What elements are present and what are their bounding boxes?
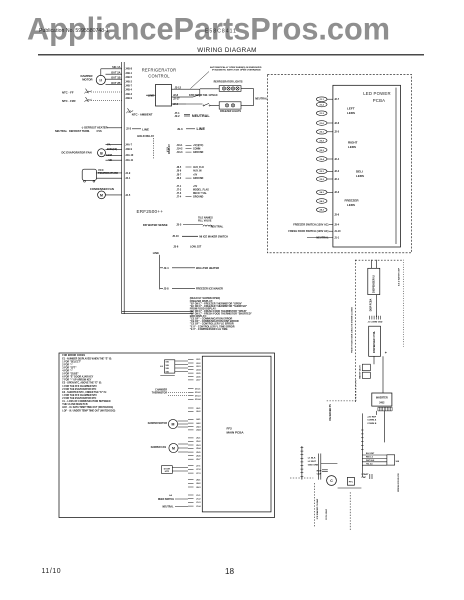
svg-text:DISPENSER UI: DISPENSER UI bbox=[372, 275, 376, 293]
svg-text:DELI: DELI bbox=[356, 170, 363, 174]
svg-text:NEUTRAL: NEUTRAL bbox=[255, 97, 268, 101]
svg-text:J1-1: J1-1 bbox=[196, 495, 201, 497]
svg-text:J6-2: J6-2 bbox=[196, 411, 201, 413]
svg-text:J3-1: J3-1 bbox=[125, 177, 131, 180]
svg-text:AUX_FLO: AUX_FLO bbox=[193, 166, 204, 169]
svg-text:4 FOR "-": 4 FOR "-" bbox=[62, 370, 72, 373]
svg-text:FREEZER: FREEZER bbox=[345, 199, 360, 203]
door switch on wire bbox=[186, 96, 193, 98]
svg-text:J3-6: J3-6 bbox=[173, 245, 179, 249]
svg-text:PTC: PTC bbox=[349, 482, 354, 484]
svg-text:+5(1)(VC): +5(1)(VC) bbox=[193, 145, 203, 147]
svg-text:FREEZER SWITCH (120V AC): FREEZER SWITCH (120V AC) bbox=[293, 222, 328, 226]
svg-text:J7-1: J7-1 bbox=[175, 111, 181, 115]
svg-text:21-1: 21-1 bbox=[320, 99, 325, 101]
svg-text:J4A-10: J4A-10 bbox=[125, 154, 134, 157]
refrigerator control relay box bbox=[156, 85, 172, 107]
svg-text:CAP: CAP bbox=[361, 476, 366, 479]
svg-text:2 FOR "-": 2 FOR "-" bbox=[62, 364, 72, 366]
wire line branch bbox=[159, 255, 161, 290]
svg-text:J1-2: J1-2 bbox=[196, 499, 201, 501]
svg-text:FILL VALVE: FILL VALVE bbox=[198, 220, 212, 223]
svg-text:+5V REF: +5V REF bbox=[367, 417, 377, 419]
svg-text:CVS: CVS bbox=[97, 129, 103, 133]
svg-text:J4B-9: J4B-9 bbox=[125, 148, 132, 151]
wire to refrigerator lights bbox=[186, 88, 200, 90]
svg-text:M: M bbox=[99, 79, 102, 83]
svg-text:J4B-7: J4B-7 bbox=[125, 85, 132, 88]
svg-text:LOW JST: LOW JST bbox=[190, 245, 202, 249]
svg-text:SIG: SIG bbox=[166, 372, 170, 374]
freezer lights box bbox=[219, 102, 241, 109]
svg-text:REFRIGERATOR LIGHTS: REFRIGERATOR LIGHTS bbox=[214, 80, 243, 83]
svg-text:M: M bbox=[100, 193, 103, 197]
svg-text:NEUTRAL: NEUTRAL bbox=[162, 506, 174, 509]
display connector bbox=[165, 360, 175, 373]
svg-text:FRESH FOOD ICE: FRESH FOOD ICE bbox=[398, 473, 400, 492]
condenser fan wire bbox=[105, 194, 121, 196]
svg-text:OUT 2B: OUT 2B bbox=[111, 81, 121, 85]
svg-text:LINE: LINE bbox=[153, 251, 159, 255]
svg-text:LEDS: LEDS bbox=[348, 145, 356, 149]
svg-text:J7-1: J7-1 bbox=[177, 186, 182, 188]
svg-text:2 FOR THE EVAPORATOR NTC: 2 FOR THE EVAPORATOR NTC bbox=[62, 397, 96, 400]
svg-text:24-1: 24-1 bbox=[320, 191, 325, 194]
svg-text:7 FOR "-" UP ARROW KEY: 7 FOR "-" UP ARROW KEY bbox=[62, 379, 92, 382]
svg-text:FRESH FOOD SWITCH (120V AC): FRESH FOOD SWITCH (120V AC) bbox=[288, 229, 328, 233]
svg-text:NEUTRAL: NEUTRAL bbox=[55, 129, 68, 133]
svg-text:ERF2500++: ERF2500++ bbox=[137, 209, 164, 214]
svg-text:NEUTRAL: NEUTRAL bbox=[192, 114, 210, 118]
svg-text:J4B-9: J4B-9 bbox=[125, 97, 132, 100]
svg-text:J2-5: J2-5 bbox=[196, 373, 201, 375]
svg-text:CONTROL: CONTROL bbox=[148, 73, 170, 78]
dashed boundary top bbox=[355, 259, 403, 261]
svg-text:6 FOR "E" DOOR AJAR KEY: 6 FOR "E" DOOR AJAR KEY bbox=[62, 376, 93, 379]
svg-text:J1-1: J1-1 bbox=[334, 236, 340, 239]
svg-text:J7-1: J7-1 bbox=[196, 466, 201, 468]
svg-text:RECO ? VAL: RECO ? VAL bbox=[193, 192, 207, 195]
svg-text:LG: LG bbox=[160, 366, 163, 368]
svg-text:J8-7: J8-7 bbox=[177, 174, 182, 176]
svg-text:LEDS: LEDS bbox=[347, 203, 355, 207]
svg-text:J4B-2: J4B-2 bbox=[125, 80, 132, 83]
dashed bottom-left stub bbox=[290, 477, 313, 479]
ff2 outer box bbox=[59, 353, 275, 518]
svg-text:E2 - OPEN NTC, ABOVE THE "E" I: E2 - OPEN NTC, ABOVE THE "E" IS: bbox=[62, 382, 102, 385]
svg-text:J4B-4: J4B-4 bbox=[125, 89, 132, 92]
svg-text:OUT 2A: OUT 2A bbox=[111, 71, 121, 75]
compressor harness wires bbox=[362, 454, 387, 456]
wire dispenser bbox=[376, 295, 378, 317]
svg-text:J8-3: J8-3 bbox=[196, 487, 201, 489]
svg-text:FREEZER LIGHTS: FREEZER LIGHTS bbox=[220, 110, 241, 113]
svg-text:WIRING DIAGRAM: WIRING DIAGRAM bbox=[197, 47, 256, 54]
svg-text:E1 - NUMBER DISPLAYED WHEN THE: E1 - NUMBER DISPLAYED WHEN THE "E" IS: bbox=[62, 357, 112, 360]
svg-text:J8-2: J8-2 bbox=[177, 178, 182, 180]
svg-text:J2-4: J2-4 bbox=[334, 158, 340, 161]
damper motor M1 bbox=[96, 75, 105, 84]
svg-text:HCF - UI. DATA TEMP TIME OUT (: HCF - UI. DATA TEMP TIME OUT (WATCHDOG) bbox=[62, 406, 113, 409]
dispenser ui pcba box bbox=[368, 268, 380, 294]
svg-text:J4A-7: J4A-7 bbox=[125, 143, 132, 146]
svg-text:L2 WHT: L2 WHT bbox=[308, 461, 317, 463]
svg-text:DISPENSER CTRL: DISPENSER CTRL bbox=[372, 330, 376, 353]
svg-text:J7-2: J7-2 bbox=[196, 469, 201, 471]
svg-text:CAP: CAP bbox=[317, 473, 322, 476]
run cap wires bbox=[318, 454, 320, 480]
svg-text:1 FOR "SELECT": 1 FOR "SELECT" bbox=[62, 361, 81, 363]
svg-text:J2-8: J2-8 bbox=[173, 93, 179, 97]
svg-text:2 FOR THE EVAPORATOR NTC: 2 FOR THE EVAPORATOR NTC bbox=[62, 388, 96, 391]
ptc starter bbox=[347, 477, 354, 485]
svg-text:WALLTER HEATER: WALLTER HEATER bbox=[196, 266, 219, 270]
svg-text:J5-5: J5-5 bbox=[196, 452, 201, 454]
svg-text:J2-3: J2-3 bbox=[334, 191, 340, 194]
svg-text:J4B-1: J4B-1 bbox=[125, 72, 132, 75]
svg-text:BLK WHT: BLK WHT bbox=[366, 453, 375, 455]
svg-text:J2-5: J2-5 bbox=[334, 131, 340, 134]
dc evaporator fan wires bbox=[106, 143, 122, 145]
bus ticks bbox=[361, 429, 364, 431]
dotted boundary right bbox=[402, 260, 404, 347]
svg-text:J6-1: J6-1 bbox=[196, 408, 201, 410]
svg-text:+: + bbox=[385, 351, 388, 355]
svg-text:WATER VALVE: WATER VALVE bbox=[358, 364, 361, 378]
svg-text:AT A: AT A bbox=[166, 147, 169, 152]
svg-text:J5-10: J5-10 bbox=[172, 234, 179, 238]
wire to inverter bbox=[382, 356, 384, 393]
svg-text:DR WATER SENSE: DR WATER SENSE bbox=[143, 223, 168, 227]
svg-text:MI ICE MAKER SWITCH: MI ICE MAKER SWITCH bbox=[199, 234, 228, 238]
svg-text:"E 0" - COMPRESSOR FLG TIME: "E 0" - COMPRESSOR FLG TIME bbox=[190, 328, 228, 331]
svg-text:GROUND: GROUND bbox=[193, 178, 204, 180]
svg-text:2402: 2402 bbox=[379, 401, 385, 404]
door heater ff2 bbox=[162, 466, 173, 474]
svg-text:J2-3: J2-3 bbox=[126, 127, 132, 131]
svg-text:ICE MAKER CLEAR: ICE MAKER CLEAR bbox=[316, 498, 319, 519]
svg-text:REED SWITCH: REED SWITCH bbox=[158, 499, 175, 501]
note leader line bbox=[191, 72, 210, 89]
svg-text:NTC - AMBIENT: NTC - AMBIENT bbox=[132, 112, 153, 116]
svg-text:J2-5: J2-5 bbox=[125, 194, 131, 197]
svg-text:J7-3: J7-3 bbox=[196, 473, 201, 475]
svg-text:GND GRN: GND GRN bbox=[308, 464, 319, 466]
svg-text:J10-3: J10-3 bbox=[195, 395, 201, 397]
svg-text:HOLD RELAY: HOLD RELAY bbox=[137, 134, 154, 138]
svg-text:START: START bbox=[361, 473, 369, 476]
svg-text:YEL 5-6: YEL 5-6 bbox=[366, 463, 373, 465]
svg-text:GROUND: GROUND bbox=[193, 196, 204, 198]
svg-text:J10-2: J10-2 bbox=[195, 392, 201, 394]
compressor motor bbox=[327, 476, 337, 486]
hold relay dashed line bbox=[152, 138, 154, 159]
svg-text:NTC - FF: NTC - FF bbox=[62, 90, 74, 94]
svg-text:J4B-3: J4B-3 bbox=[125, 93, 132, 96]
svg-text:NEUTRAL: NEUTRAL bbox=[211, 225, 224, 229]
svg-text:MOTOR: MOTOR bbox=[82, 77, 92, 81]
svg-text:ICE MAKER PS: ICE MAKER PS bbox=[329, 404, 332, 421]
svg-text:J7-4: J7-4 bbox=[177, 195, 182, 198]
svg-text:22-1: 22-1 bbox=[320, 132, 325, 134]
svg-text:B: B bbox=[100, 151, 103, 155]
svg-text:J2-12: J2-12 bbox=[175, 85, 182, 89]
svg-text:AUX_IN: AUX_IN bbox=[193, 170, 202, 173]
svg-text:J2-6: J2-6 bbox=[334, 122, 340, 125]
svg-text:FOR ERROR CODES: FOR ERROR CODES bbox=[62, 355, 85, 357]
wire to freezer lights with switch bbox=[186, 103, 203, 105]
title rule bbox=[38, 54, 424, 56]
svg-text:J2-1: J2-1 bbox=[334, 178, 340, 181]
svg-text:HTR: HTR bbox=[165, 471, 170, 473]
svg-text:J2-4: J2-4 bbox=[164, 266, 170, 270]
svg-text:24-2: 24-2 bbox=[320, 200, 325, 203]
svg-text:COMM A: COMM A bbox=[367, 419, 376, 422]
svg-text:CHAMBER: CHAMBER bbox=[155, 389, 167, 392]
svg-text:1 FOR THE FF2 CHAMBER NTC: 1 FOR THE FF2 CHAMBER NTC bbox=[62, 385, 97, 388]
svg-text:J5-2: J5-2 bbox=[196, 441, 201, 443]
svg-text:J2-7: J2-7 bbox=[196, 380, 201, 382]
inverter pin comb bbox=[378, 406, 392, 408]
dispenser control box bbox=[369, 326, 381, 356]
svg-text:IF MAGNETIC SWITCH DK OPEN OVE: IF MAGNETIC SWITCH DK OPEN OVERRANGE bbox=[212, 69, 261, 72]
svg-text:J4-3: J4-3 bbox=[196, 425, 201, 428]
svg-text:THE UI AND MAIN PCB: THE UI AND MAIN PCB bbox=[62, 403, 88, 406]
wire ptc bbox=[338, 487, 362, 489]
svg-text:J3-6: J3-6 bbox=[334, 213, 340, 216]
svg-text:J4-1: J4-1 bbox=[196, 418, 201, 421]
svg-text:115V 60HZ: 115V 60HZ bbox=[326, 508, 328, 520]
svg-text:DISP PCBA: DISP PCBA bbox=[370, 298, 373, 311]
svg-text:COMM B: COMM B bbox=[367, 423, 377, 425]
inverter output wires bbox=[376, 411, 378, 415]
svg-text:J5-3: J5-3 bbox=[196, 445, 201, 447]
svg-text:5 FOR "CUBE": 5 FOR "CUBE" bbox=[62, 374, 78, 376]
water valve boxes bbox=[362, 364, 370, 371]
svg-text:J1-4: J1-4 bbox=[196, 505, 201, 508]
mullion heater bbox=[160, 267, 163, 269]
svg-text:J5-7: J5-7 bbox=[196, 459, 201, 461]
svg-text:LOF - UI. UNDER TEMP TIME OUT: LOF - UI. UNDER TEMP TIME OUT (WATCHDOG) bbox=[62, 409, 115, 412]
svg-text:DAMPER FAN: DAMPER FAN bbox=[151, 446, 167, 449]
svg-text:L1 BLK: L1 BLK bbox=[308, 458, 316, 460]
svg-text:MODEL_FLAG: MODEL_FLAG bbox=[193, 188, 209, 191]
svg-text:LEDS: LEDS bbox=[347, 111, 355, 115]
led power outer box bbox=[267, 74, 411, 252]
svg-text:J8-1: J8-1 bbox=[196, 479, 201, 481]
svg-text:SIG 1A: SIG 1A bbox=[112, 65, 121, 69]
refrigerator lamps bbox=[222, 87, 225, 90]
svg-text:18: 18 bbox=[225, 567, 235, 576]
svg-text:23-1: 23-1 bbox=[320, 171, 325, 173]
svg-text:+5V: +5V bbox=[193, 186, 198, 188]
svg-text:3 FOR "CFT": 3 FOR "CFT" bbox=[62, 367, 76, 369]
svg-text:J1 COMM GND: J1 COMM GND bbox=[368, 322, 383, 324]
svg-text:23-2: 23-2 bbox=[320, 179, 325, 181]
svg-text:J9-3: J9-3 bbox=[177, 127, 183, 131]
svg-text:J10-1: J10-1 bbox=[195, 388, 201, 390]
svg-text:J2-4: J2-4 bbox=[196, 369, 201, 372]
temperature sensor bbox=[82, 169, 96, 180]
freezer lamps bbox=[225, 104, 228, 107]
svg-text:J3-5: J3-5 bbox=[176, 222, 182, 226]
svg-text:INVERTER: INVERTER bbox=[376, 397, 388, 399]
svg-text:CONDENSER FAN: CONDENSER FAN bbox=[90, 187, 114, 191]
damper motor wires bbox=[108, 68, 122, 70]
svg-text:J2-6: J2-6 bbox=[196, 376, 201, 378]
svg-text:DC EVAPORATOR FAN: DC EVAPORATOR FAN bbox=[62, 150, 92, 154]
svg-text:J4B-5: J4B-5 bbox=[125, 76, 132, 79]
svg-text:+5V: +5V bbox=[193, 174, 198, 176]
svg-text:24-3: 24-3 bbox=[320, 209, 325, 212]
svg-text:C: C bbox=[330, 479, 333, 483]
svg-text:J14-1: J14-1 bbox=[177, 144, 184, 147]
svg-text:MAIN PCBA: MAIN PCBA bbox=[227, 431, 245, 435]
svg-text:Publication No. 5995580748-1: Publication No. 5995580748-1 bbox=[39, 28, 109, 34]
svg-text:J2-7: J2-7 bbox=[334, 98, 340, 101]
svg-text:J8-2: J8-2 bbox=[196, 483, 201, 485]
svg-text:J4B-8: J4B-8 bbox=[125, 68, 132, 71]
svg-text:AUTOMATICALLY OPEN WHEN(S) IS: AUTOMATICALLY OPEN WHEN(S) IS ENERGIZED bbox=[210, 66, 262, 69]
svg-text:SIG: SIG bbox=[166, 362, 170, 364]
dashed boundary line bbox=[354, 260, 356, 402]
svg-text:M: M bbox=[172, 423, 175, 427]
svg-text:DEFROST TERM.: DEFROST TERM. bbox=[69, 129, 90, 133]
inverter connector bbox=[372, 393, 392, 406]
svg-text:CL - LOSS OF COMMUNICATION BET: CL - LOSS OF COMMUNICATION BETWEEN bbox=[62, 400, 110, 403]
svg-text:LA: LA bbox=[169, 494, 172, 497]
svg-text:J7-3: J7-3 bbox=[177, 193, 182, 195]
svg-text:J8-5: J8-5 bbox=[177, 167, 182, 169]
led power pcba box bbox=[333, 85, 401, 247]
dashed line left of inverter bbox=[355, 380, 357, 401]
svg-text:J14-3: J14-3 bbox=[177, 151, 184, 154]
svg-text:J2-2: J2-2 bbox=[334, 170, 340, 173]
svg-text:J4-2: J4-2 bbox=[196, 422, 201, 425]
svg-text:SIG: SIG bbox=[166, 368, 170, 370]
dashed ground line bbox=[349, 492, 351, 530]
svg-text:GROUND: GROUND bbox=[193, 152, 204, 154]
svg-text:21-3: 21-3 bbox=[320, 113, 325, 115]
terminal strip bbox=[301, 446, 303, 480]
temperature sensor wires bbox=[96, 172, 121, 174]
svg-text:WHT BLK: WHT BLK bbox=[366, 460, 375, 462]
wire harness bus bottom bbox=[122, 310, 193, 312]
svg-text:22-4: 22-4 bbox=[320, 158, 325, 161]
svg-text:J2-8: J2-8 bbox=[164, 286, 170, 290]
ff2 main pcba box bbox=[202, 356, 271, 512]
svg-text:1 FOR THE FF2 CHAMBER NTC: 1 FOR THE FF2 CHAMBER NTC bbox=[62, 394, 97, 397]
svg-text:LEDS: LEDS bbox=[356, 174, 364, 178]
svg-text:908: 908 bbox=[396, 461, 400, 463]
svg-text:PCBA: PCBA bbox=[373, 98, 386, 103]
svg-text:COMM: COMM bbox=[193, 149, 200, 151]
svg-text:J4-4: J4-4 bbox=[196, 429, 201, 432]
dispenser connector ticks bbox=[369, 316, 371, 320]
compressor terminal bbox=[387, 455, 395, 465]
svg-text:J5-1: J5-1 bbox=[196, 438, 201, 440]
svg-text:22-2: 22-2 bbox=[320, 140, 325, 142]
svg-text:DISPLAY: DISPLAY bbox=[168, 144, 171, 154]
svg-text:J5-4: J5-4 bbox=[196, 447, 201, 450]
thermistor NTC-AMBIENT bbox=[126, 110, 133, 113]
svg-text:E58C8411: E58C8411 bbox=[205, 29, 237, 35]
svg-text:-(- DEFROST HEATER: -(- DEFROST HEATER bbox=[81, 126, 108, 130]
svg-text:J2-2: J2-2 bbox=[196, 363, 201, 365]
led power pcba inner rail bbox=[395, 88, 397, 244]
svg-text:22-3: 22-3 bbox=[320, 150, 325, 152]
svg-text:REFRIGERATOR: REFRIGERATOR bbox=[142, 68, 177, 73]
svg-text:J8-6: J8-6 bbox=[177, 171, 182, 173]
svg-text:J3-4: J3-4 bbox=[334, 223, 340, 226]
svg-text:11/10: 11/10 bbox=[42, 568, 62, 575]
connector ovals Z-column bbox=[316, 97, 327, 102]
dispenser feed wires bbox=[371, 260, 373, 269]
svg-text:ICE & WATER DISP: ICE & WATER DISP bbox=[398, 267, 401, 286]
neutral return wire bbox=[241, 88, 254, 90]
svg-text:M: M bbox=[172, 447, 175, 451]
svg-text:J14-2: J14-2 bbox=[177, 148, 184, 151]
svg-text:J7-2: J7-2 bbox=[177, 189, 182, 191]
svg-text:J2-3: J2-3 bbox=[196, 366, 201, 368]
svg-text:RED 2-3: RED 2-3 bbox=[366, 457, 373, 459]
svg-text:RUN: RUN bbox=[317, 471, 322, 473]
svg-text:FZR DOOR SW. 115VAC: FZR DOOR SW. 115VAC bbox=[189, 93, 218, 97]
svg-text:LINE: LINE bbox=[142, 127, 149, 131]
svg-text:J5-6: J5-6 bbox=[196, 455, 201, 457]
wire harness bus vertical bbox=[121, 62, 123, 314]
svg-text:J1-10: J1-10 bbox=[334, 230, 341, 233]
svg-text:J2-1: J2-1 bbox=[196, 359, 201, 361]
svg-text:J2-2: J2-2 bbox=[175, 114, 181, 118]
svg-text:LED POWER: LED POWER bbox=[363, 91, 391, 96]
svg-text:J10-4: J10-4 bbox=[195, 398, 201, 401]
freezer ice maker bbox=[160, 287, 163, 289]
svg-text:J1-3: J1-3 bbox=[196, 502, 201, 504]
svg-text:NTC - FZR: NTC - FZR bbox=[62, 99, 76, 103]
svg-text:DAMPER MOTOR: DAMPER MOTOR bbox=[148, 422, 168, 425]
svg-text:21-6: 21-6 bbox=[320, 123, 325, 125]
svg-text:LINE: LINE bbox=[197, 127, 206, 131]
svg-text:FREEZER ICE MAKER: FREEZER ICE MAKER bbox=[196, 286, 223, 290]
svg-text:OUT 1B: OUT 1B bbox=[111, 76, 121, 80]
svg-text:E3 - SHORTED NTC, UNDER THE "E: E3 - SHORTED NTC, UNDER THE "E" IS: bbox=[62, 392, 107, 394]
svg-text:J4A-11: J4A-11 bbox=[125, 159, 134, 162]
svg-text:FRESH FOOD DOOR CIRCUITS SHOWN: FRESH FOOD DOOR CIRCUITS SHOWN CLOSED bbox=[351, 306, 353, 353]
svg-text:J4-9: J4-9 bbox=[125, 172, 131, 175]
dashed vertical ground bbox=[314, 483, 316, 527]
svg-text:SIG: SIG bbox=[166, 365, 170, 367]
svg-text:21-2: 21-2 bbox=[320, 104, 325, 106]
svg-text:THERMISTOR: THERMISTOR bbox=[152, 393, 168, 395]
